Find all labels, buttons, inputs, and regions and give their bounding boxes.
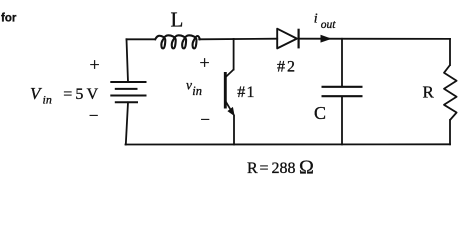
capacitor C xyxy=(322,87,363,96)
resistor R xyxy=(444,65,457,120)
svg-text:#: # xyxy=(277,59,285,76)
svg-text:= 5 V: = 5 V xyxy=(60,86,99,103)
svg-text:in: in xyxy=(43,93,52,107)
svg-text:C: C xyxy=(314,103,326,123)
wire right rail upper xyxy=(449,39,451,65)
wire capacitor bottom lead xyxy=(341,97,343,144)
wire top rail diode to right corner xyxy=(300,38,451,40)
arrowhead i_out xyxy=(321,35,332,43)
svg-text:288: 288 xyxy=(272,160,296,177)
svg-text:R: R xyxy=(423,83,435,102)
svg-text:i: i xyxy=(314,11,318,26)
svg-text:#: # xyxy=(237,84,245,101)
svg-text:1: 1 xyxy=(247,84,255,101)
wire bottom rail xyxy=(126,143,451,145)
transistor Q1 xyxy=(225,70,233,113)
svg-text:for: for xyxy=(1,13,17,25)
svg-text:−: − xyxy=(89,106,99,125)
wire left rail lower xyxy=(126,102,128,144)
battery V_in xyxy=(110,82,146,102)
inductor L xyxy=(155,35,200,48)
svg-text:v: v xyxy=(186,77,192,92)
wire top rail left segment xyxy=(127,38,156,40)
svg-text:=: = xyxy=(260,160,269,177)
svg-text:in: in xyxy=(192,84,202,98)
wire transistor emitter lead xyxy=(233,116,235,145)
wire transistor collector lead xyxy=(233,39,235,70)
svg-text:+: + xyxy=(200,53,210,73)
svg-text:L: L xyxy=(171,8,184,32)
wire top rail coil to diode xyxy=(199,38,277,41)
svg-text:Ω: Ω xyxy=(299,157,314,179)
diode D2 xyxy=(277,29,298,49)
svg-text:R: R xyxy=(247,160,258,177)
wire right rail lower xyxy=(449,120,451,144)
wire capacitor top lead xyxy=(341,39,343,86)
svg-text:−: − xyxy=(200,110,210,129)
wire left rail upper xyxy=(127,39,129,82)
svg-text:+: + xyxy=(90,55,100,75)
svg-text:out: out xyxy=(321,19,337,31)
svg-text:2: 2 xyxy=(287,59,295,76)
svg-text:V: V xyxy=(30,84,43,103)
transistor Q1 emitter arrowhead xyxy=(227,107,234,116)
